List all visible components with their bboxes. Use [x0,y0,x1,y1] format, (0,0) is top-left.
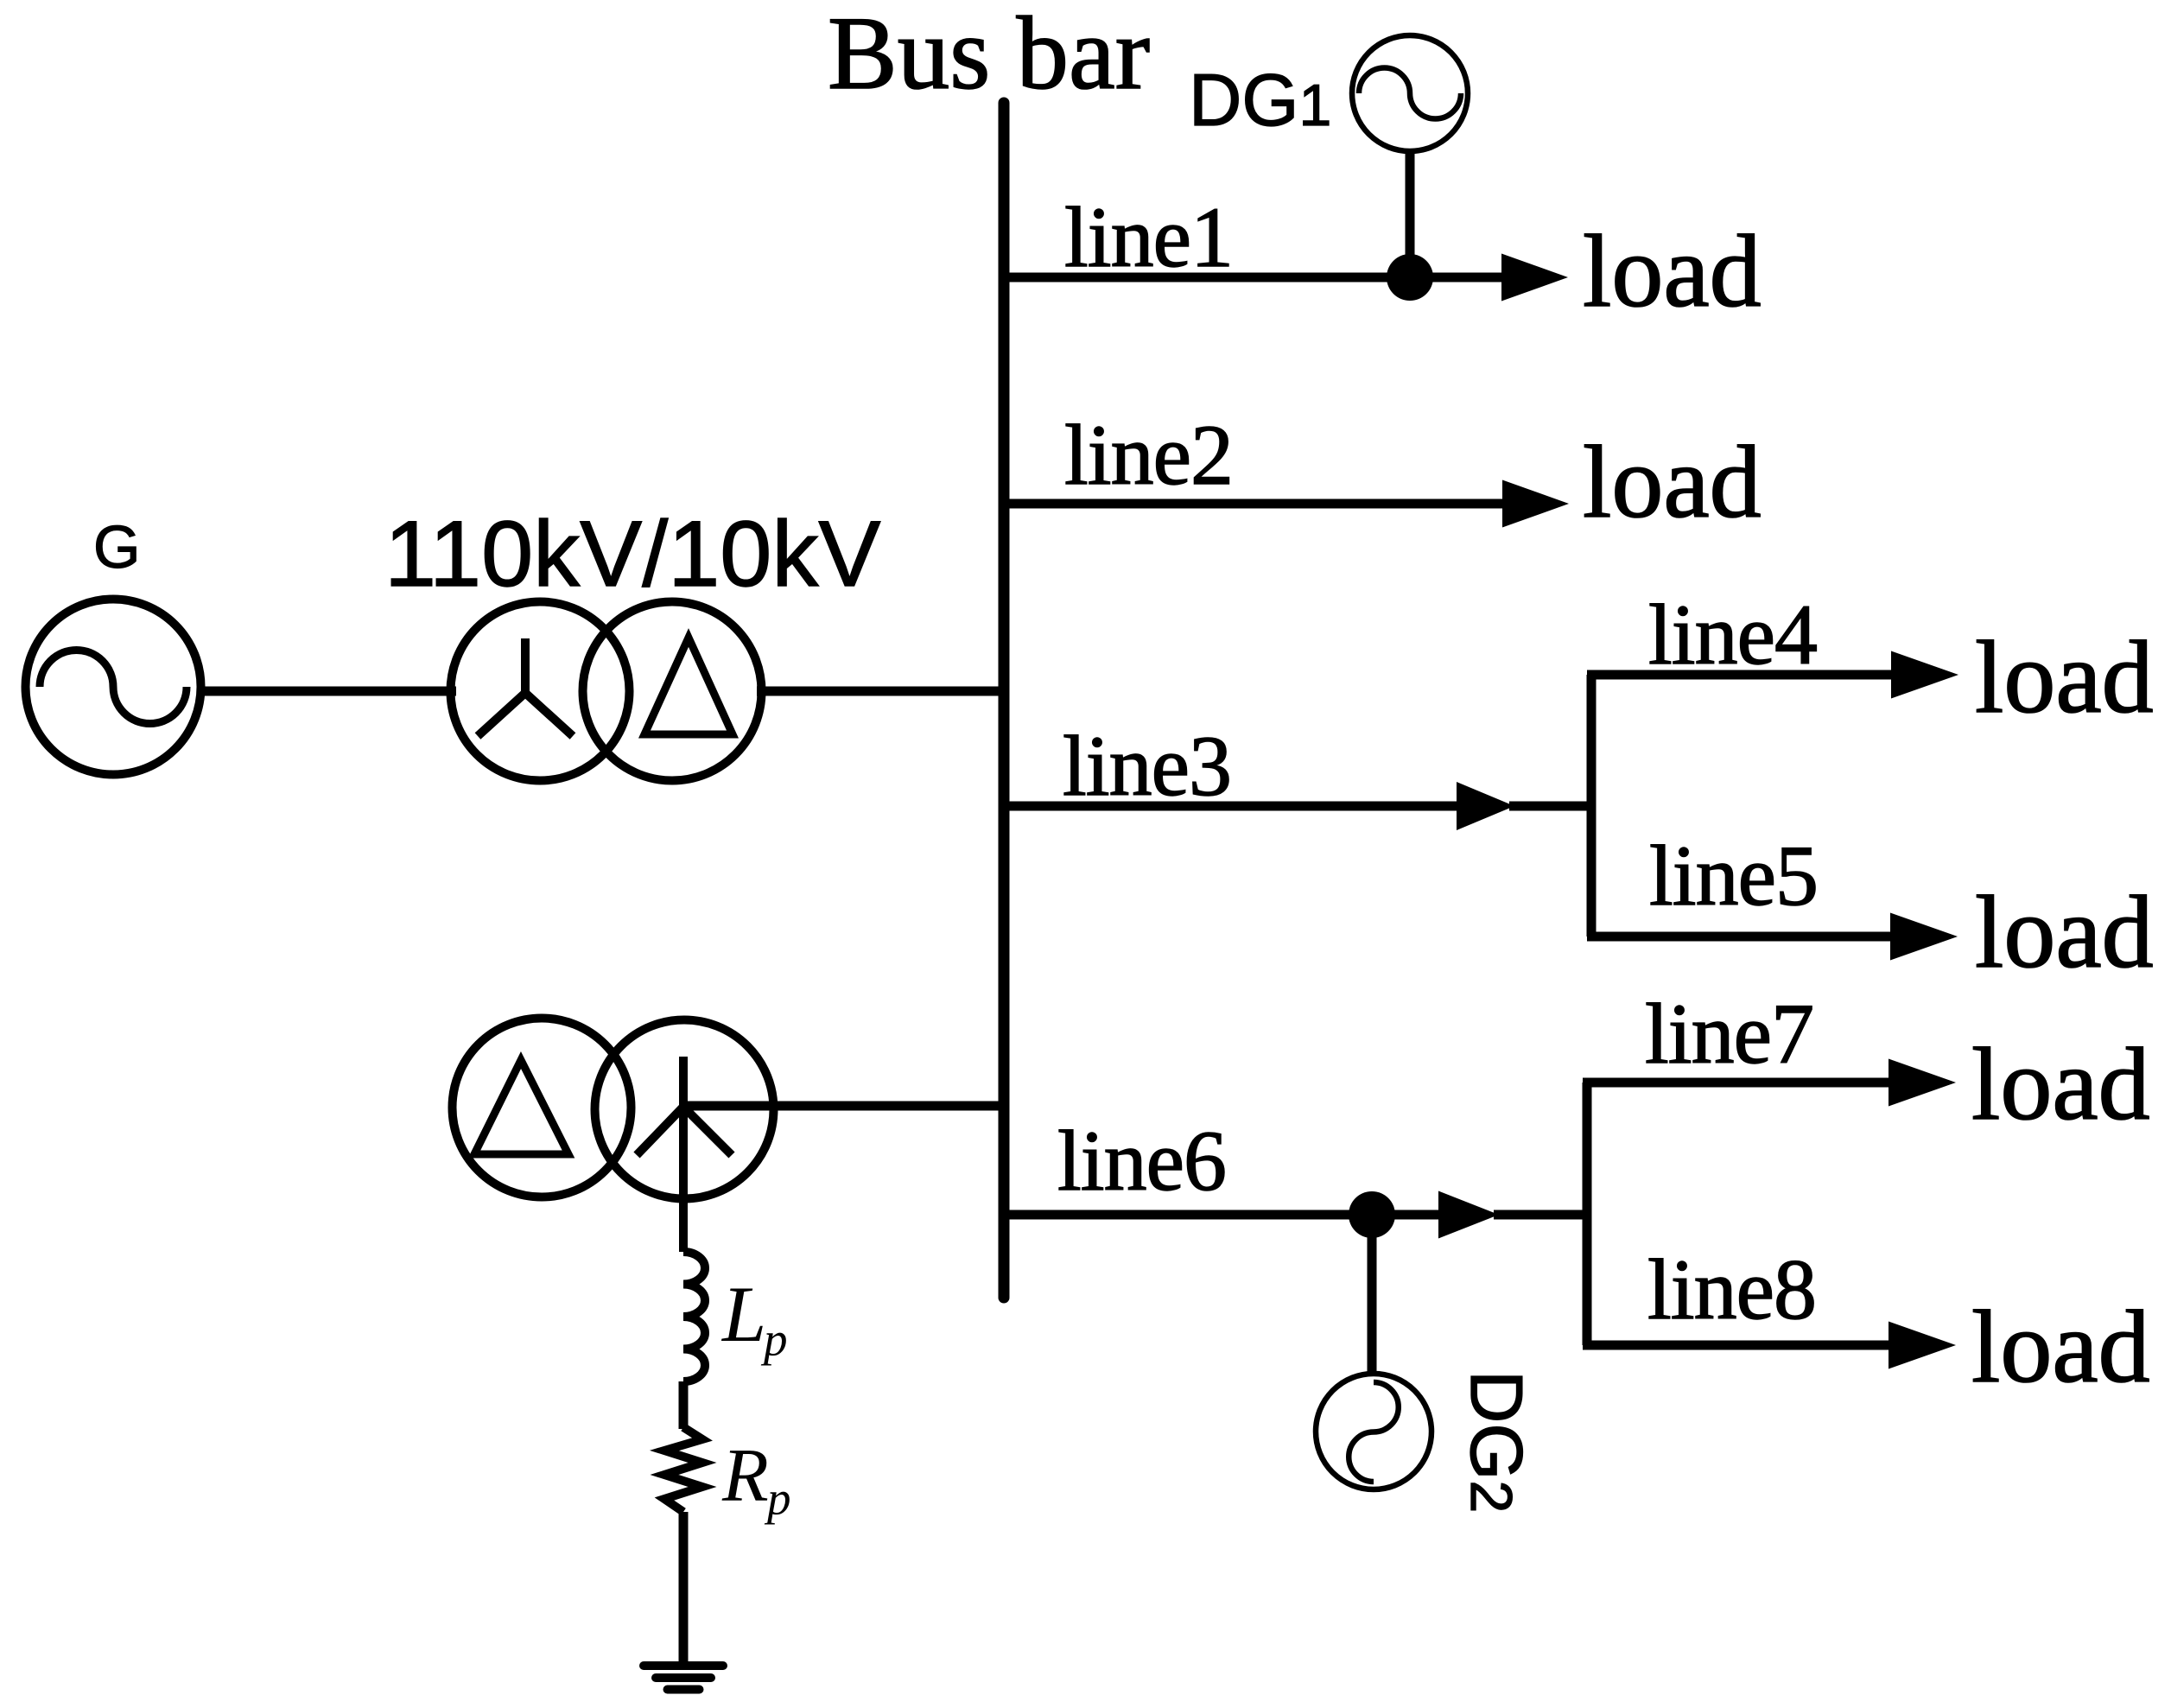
DG2 sine [1349,1382,1399,1482]
resistor Rp [664,1427,702,1512]
DG1 sine [1359,68,1461,119]
bus bar [999,103,1010,1298]
line3 wire [1004,802,1457,811]
svg-text:load: load [1583,424,1762,539]
svg-text:R: R [721,1434,769,1518]
wire Rp to ground [679,1512,689,1666]
T2 wye-neutral symbol [637,1057,732,1252]
branch vertical line4/line5 [1587,675,1597,937]
svg-text:110kV/10kV: 110kV/10kV [384,501,880,606]
transformer T1 secondary circle [583,602,762,781]
transformer T2 primary circle [453,1019,632,1197]
svg-text:load: load [1975,619,2154,734]
wire Lp to Rp [679,1381,689,1429]
junction dot line1 / DG1 [1387,254,1433,301]
svg-text:load: load [1583,213,1762,328]
arrow line1 [1501,254,1568,302]
inductor Lp [683,1252,705,1381]
DG2 circle [1316,1374,1431,1489]
svg-text:load: load [1971,1026,2150,1141]
svg-text:line1: line1 [1064,189,1233,285]
wire line6 to branch [1494,1210,1591,1220]
svg-text:Bus bar: Bus bar [828,0,1150,111]
line5 wire [1587,932,1890,942]
wire G to transformer T1 [202,687,456,696]
svg-text:line8: line8 [1647,1241,1816,1337]
arrow line4 [1891,651,1958,699]
svg-text:line5: line5 [1649,828,1818,924]
svg-text:L: L [720,1270,766,1358]
wire T1 to bus bar [757,687,1004,696]
DG1 lead wire [1406,151,1415,277]
arrow line6 [1438,1191,1499,1239]
DG2 lead wire [1368,1215,1377,1375]
transformer T2 secondary circle [595,1020,774,1199]
svg-text:DG2: DG2 [1455,1370,1537,1513]
DG1 circle [1352,35,1468,151]
svg-text:line3: line3 [1063,718,1231,814]
svg-text:DG1: DG1 [1189,60,1331,142]
line8 wire [1583,1341,1889,1350]
arrow line3 [1457,782,1514,830]
svg-text:G: G [93,513,140,581]
T2 delta symbol [474,1060,568,1154]
line7 wire [1583,1078,1889,1088]
svg-text:load: load [1971,1289,2150,1404]
svg-text:p: p [764,1472,791,1525]
generator G circle [26,600,201,775]
svg-text:line7: line7 [1645,986,1813,1082]
line1 wire [1004,273,1501,283]
wire line3 to branch [1509,802,1596,811]
line6 wire [1004,1210,1438,1220]
generator G sine [40,651,187,724]
svg-text:p: p [760,1313,788,1366]
svg-text:line2: line2 [1064,407,1233,503]
arrow line8 [1889,1322,1956,1369]
svg-text:line6: line6 [1057,1113,1226,1209]
line2 wire [1004,499,1502,509]
transformer T1 primary circle [451,602,630,781]
line4 wire [1587,670,1891,680]
svg-text:load: load [1975,874,2154,989]
ground [644,1666,723,1690]
branch vertical line7/line8 [1583,1083,1592,1345]
arrow line5 [1890,913,1958,961]
T1 wye symbol [478,638,573,736]
wire T2 to bus bar [683,1102,1004,1111]
arrow line2 [1502,480,1569,528]
arrow line7 [1889,1059,1956,1107]
junction dot line6 / DG2 [1349,1191,1395,1238]
svg-text:line4: line4 [1648,587,1817,683]
T1 delta symbol [644,638,733,734]
